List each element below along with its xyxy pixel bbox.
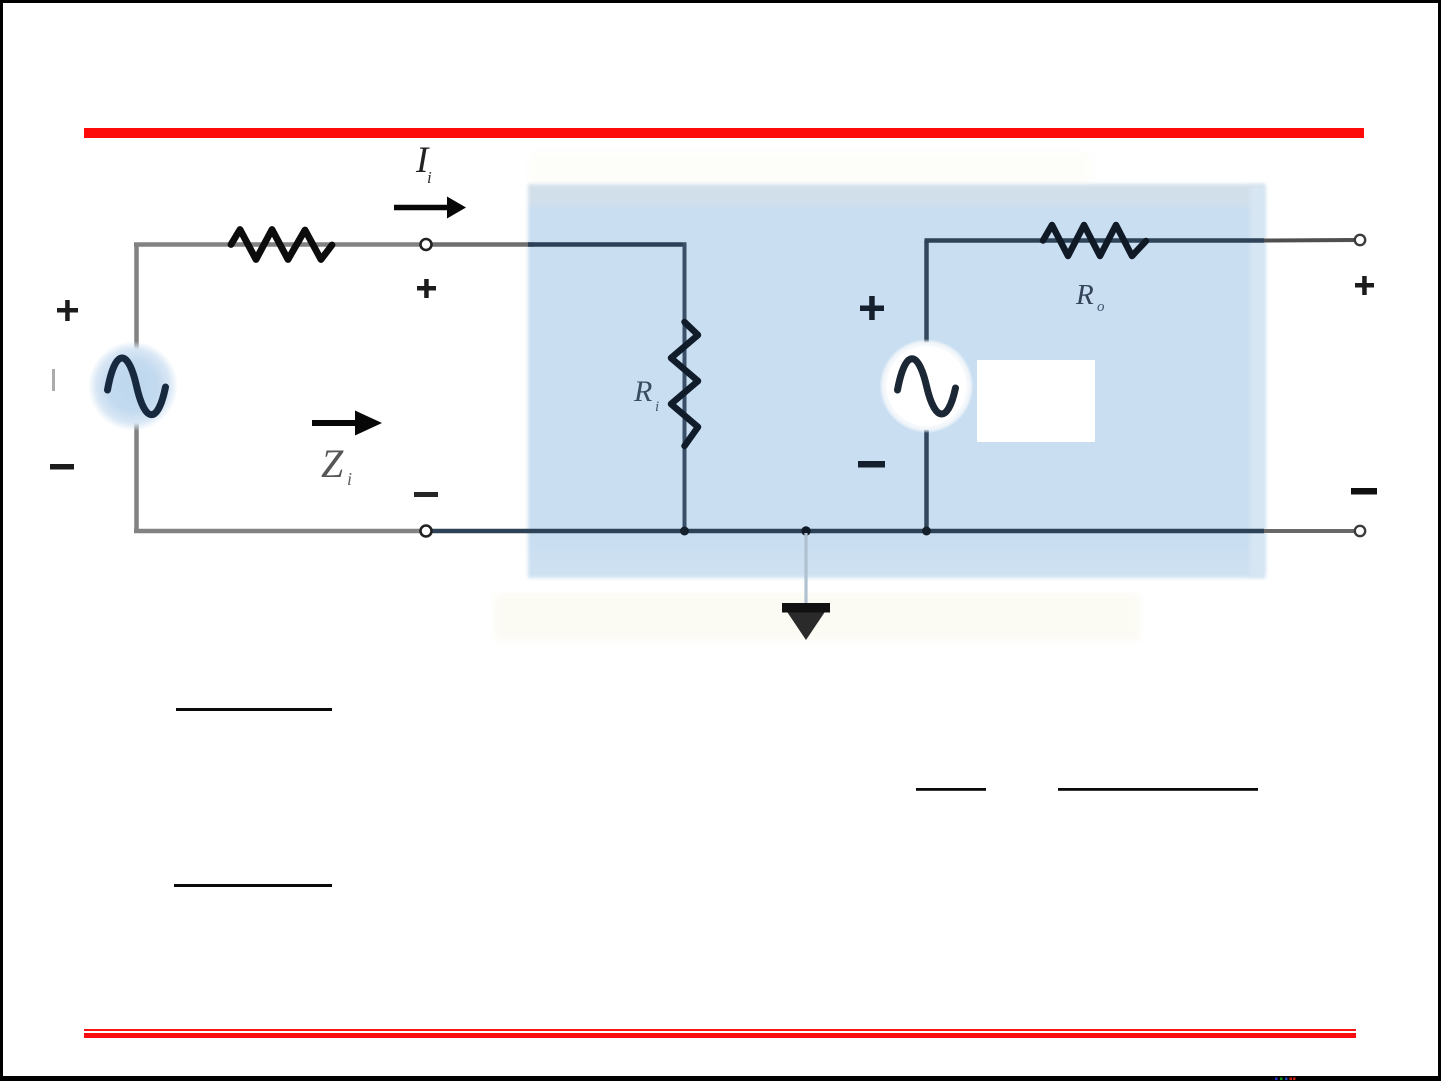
input node terminal (bottom, open circle) xyxy=(421,526,432,537)
wire: top horizontal from source to input node xyxy=(134,242,428,247)
amplifier shaded box (light blue highlight) xyxy=(528,184,1265,578)
svg-text:Z: Z xyxy=(321,441,344,486)
impedance Zi arrow xyxy=(312,411,382,436)
fraction bar (equation 2 short) xyxy=(916,788,986,791)
junction dot at ground tap xyxy=(801,526,810,535)
wire: bottom horizontal dark (node to box and across box) xyxy=(430,529,1264,534)
faint cream strip above box xyxy=(530,152,1090,184)
amplifier box lighter right edge band xyxy=(1250,186,1265,576)
whited-out gain label box xyxy=(977,360,1095,442)
ac source Vs sine glyph xyxy=(108,358,166,415)
resistor Ro (output resistance, zigzag) xyxy=(1043,225,1146,256)
faint cropped label stroke left edge xyxy=(52,369,55,391)
plus sign (input port) xyxy=(417,279,436,298)
output terminal (top, open circle) xyxy=(1355,235,1365,245)
faint cream strip below box xyxy=(495,594,1140,640)
junction dot at controlled-source branch xyxy=(922,527,931,536)
wire: input node to amplifier box (gray fading) xyxy=(430,242,534,247)
plus sign (source left) xyxy=(57,300,78,321)
wire: left vertical (source branch) xyxy=(134,245,139,532)
top red rule xyxy=(84,128,1364,138)
wire: bottom horizontal to output terminal xyxy=(1264,529,1356,533)
ground stem xyxy=(804,533,807,604)
fraction bar (equation 2 long) xyxy=(1058,788,1258,791)
minus sign (output port) xyxy=(1351,488,1377,495)
page frame top border xyxy=(0,0,1441,3)
svg-text:i: i xyxy=(427,168,432,187)
output terminal (bottom, open circle) xyxy=(1355,526,1365,536)
bottom red rule (thick lower stroke) xyxy=(84,1033,1356,1038)
ground symbol (filled triangle) xyxy=(787,611,826,640)
wire: Ro horizontal inside box xyxy=(925,238,1265,243)
page frame left border xyxy=(0,0,3,1081)
page frame right border xyxy=(1438,0,1441,1081)
controlled source sine glyph xyxy=(898,359,956,414)
wire: bottom horizontal gray (source side) xyxy=(134,529,426,534)
current Ii arrow xyxy=(394,197,466,219)
svg-text:R: R xyxy=(633,375,652,408)
bottom red rule (thin upper stroke) xyxy=(84,1029,1356,1032)
controlled source halo xyxy=(880,339,974,433)
fraction bar (equation 1, hidden equation) xyxy=(176,708,332,711)
ac source Vs (blue halo circle) xyxy=(88,341,178,431)
plus sign (controlled source) xyxy=(860,296,884,320)
wire: Ri vertical branch xyxy=(683,243,687,532)
minus sign (controlled source) xyxy=(858,461,885,468)
resistor Ri (input resistance, vertical zigzag) xyxy=(671,322,698,446)
svg-text:o: o xyxy=(1097,299,1105,315)
minus sign (input port) xyxy=(414,492,438,497)
page frame bottom border xyxy=(0,1076,1441,1081)
svg-text:i: i xyxy=(347,469,352,489)
minus sign (source left) xyxy=(50,464,74,470)
wire: top inside box to Ri branch (dark navy) xyxy=(528,242,687,247)
resistor Rs (source resistance, zigzag) xyxy=(231,230,332,260)
wire: dependent source vertical branch xyxy=(924,241,929,532)
svg-text:R: R xyxy=(1075,279,1094,311)
controlled source body xyxy=(887,346,967,426)
input node terminal (top, open circle) xyxy=(421,239,432,250)
tiny cropped page-number dots on bottom border xyxy=(1275,1078,1296,1081)
plus sign (output port) xyxy=(1355,276,1374,295)
svg-text:i: i xyxy=(655,399,659,415)
fraction bar (equation 3) xyxy=(174,884,332,887)
junction dot at Ri / bottom rail xyxy=(680,527,689,536)
wire: Ro line to output terminal xyxy=(1264,238,1356,243)
